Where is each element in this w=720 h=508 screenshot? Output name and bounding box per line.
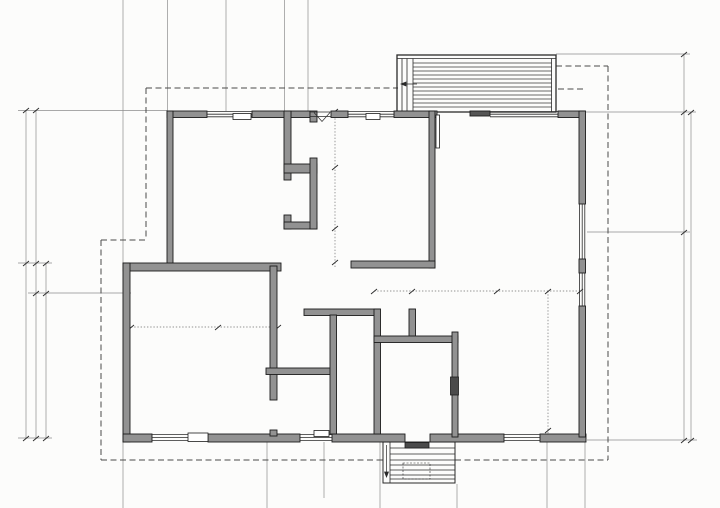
right extension at top wall corner xyxy=(586,111,696,113)
extension line above wardrobe east wall xyxy=(307,0,309,111)
flat soffit dashed top xyxy=(556,65,608,67)
heater box mbath bottom wall xyxy=(314,431,329,437)
wall kitchen west xyxy=(452,332,458,437)
wall east kitchen xyxy=(579,306,586,437)
extension below wall utility xyxy=(379,442,381,508)
wall vanity center xyxy=(330,315,337,434)
heater box bedroom1 bottom wall xyxy=(188,433,208,442)
window bedroom1 bottom xyxy=(152,435,188,441)
wardrobe divider wall xyxy=(284,164,317,173)
left extension at wardrobe line xyxy=(28,292,131,294)
wall utility north xyxy=(374,336,458,343)
wall bedroom1 east xyxy=(270,266,277,400)
right extension mid xyxy=(587,231,690,233)
wall bath west stub xyxy=(270,430,277,436)
elec panel on kitchen wall xyxy=(451,377,459,395)
door leaf entry xyxy=(436,115,440,148)
window mbath bottom xyxy=(300,435,332,441)
stairs side strip xyxy=(389,442,391,483)
window bedroom2 top xyxy=(207,112,252,117)
wall west bedroom1 xyxy=(123,263,130,442)
roof overhang east xyxy=(607,66,609,460)
wall top A bedroom2 xyxy=(167,111,207,118)
left dimension line inner xyxy=(45,263,47,438)
wardrobe bottom wall xyxy=(284,222,317,229)
dn to grade label box xyxy=(403,463,430,479)
deck stair stringers xyxy=(402,59,413,113)
tick marks xyxy=(23,108,49,441)
back door leaf over stairs xyxy=(405,443,429,449)
dim line kitchen vertical xyxy=(547,291,549,436)
wall tub east xyxy=(374,309,381,434)
top extension from deck to right dim xyxy=(556,53,690,55)
stairs down arrow xyxy=(385,445,389,477)
extension below east wall xyxy=(584,442,586,508)
wardrobe head bifold gap xyxy=(310,112,331,122)
roof overhang west xyxy=(100,240,102,460)
wall bedroom2 south + step xyxy=(123,263,281,271)
wall bedroom3 south xyxy=(351,261,435,268)
roof overhang line upper west xyxy=(145,88,147,240)
roof overhang line top xyxy=(146,87,398,89)
wardrobe west wall upper xyxy=(284,111,291,180)
entry threshold xyxy=(470,111,490,116)
wardrobe east wall upper xyxy=(310,111,317,122)
flat soffit dashed inner xyxy=(558,88,586,90)
right extension at bottom wall xyxy=(587,439,697,441)
grid line full height at bedroom1 west wall xyxy=(122,0,124,508)
dim line bedroom1 xyxy=(131,326,278,328)
wall bottom B xyxy=(208,434,300,442)
wall coats east xyxy=(409,309,416,338)
left dimension line outer xyxy=(25,110,27,438)
roof overhang step xyxy=(101,239,146,241)
window bedroom3 top xyxy=(348,112,394,117)
extension below stairs xyxy=(456,484,458,508)
right dimension line outer xyxy=(690,112,692,440)
extension below wall m.bath window xyxy=(323,442,325,498)
wall top F living corner xyxy=(558,111,585,118)
deck right rail inner xyxy=(551,59,553,113)
extension line above wardrobe west wall xyxy=(284,0,286,111)
extension below wall at window jamb xyxy=(266,442,268,508)
left extension at top wall xyxy=(18,110,167,112)
window east heatpump xyxy=(580,273,585,306)
wall top B bedroom2 east xyxy=(252,111,291,118)
wall top D bedroom3 xyxy=(331,111,348,118)
wall bottom C xyxy=(332,434,405,442)
heater box bedroom3 top wall xyxy=(366,114,380,120)
right dimension line xyxy=(683,54,685,440)
stair treads xyxy=(390,448,455,479)
extension line above bedroom2 west wall xyxy=(167,0,169,111)
left extension at bottom wall xyxy=(18,437,52,439)
deck down arrow xyxy=(401,82,417,86)
wall bath north xyxy=(304,309,380,316)
wall top E bedroom3 east xyxy=(394,111,437,118)
wall bottom D xyxy=(430,434,504,442)
wardrobe east wall lower xyxy=(310,158,317,229)
window kitchen bottom xyxy=(504,435,540,441)
wall bottom A xyxy=(123,434,152,442)
deck boards xyxy=(413,63,552,107)
heater box bedroom2 top wall xyxy=(233,114,251,120)
roof overhang bottom right xyxy=(455,459,608,461)
wall east mid xyxy=(579,259,586,273)
wardrobe west wall lower xyxy=(284,215,291,229)
wall east living xyxy=(579,111,586,204)
window living east xyxy=(580,204,585,259)
wall bottom E xyxy=(540,434,586,442)
roof overhang bottom left xyxy=(101,459,383,461)
window living top xyxy=(490,112,558,117)
wall bedroom3/living xyxy=(429,111,435,268)
extension below kitchen window xyxy=(546,441,548,508)
deck top rail inner line xyxy=(397,58,556,60)
left dimension line middle xyxy=(35,110,37,438)
exterior stairs outline bottom xyxy=(383,442,455,483)
extension line above bedroom2 window xyxy=(225,0,227,111)
left extension at bedroom2 south wall xyxy=(18,262,52,264)
dim line bedroom3 vertical xyxy=(334,112,336,268)
wall bath/mbath divider xyxy=(266,368,336,375)
wall west bedroom2 xyxy=(167,111,173,267)
deck outline xyxy=(397,55,556,112)
wall top C wardrobe head xyxy=(291,111,310,118)
dim line living-dining xyxy=(374,290,580,292)
